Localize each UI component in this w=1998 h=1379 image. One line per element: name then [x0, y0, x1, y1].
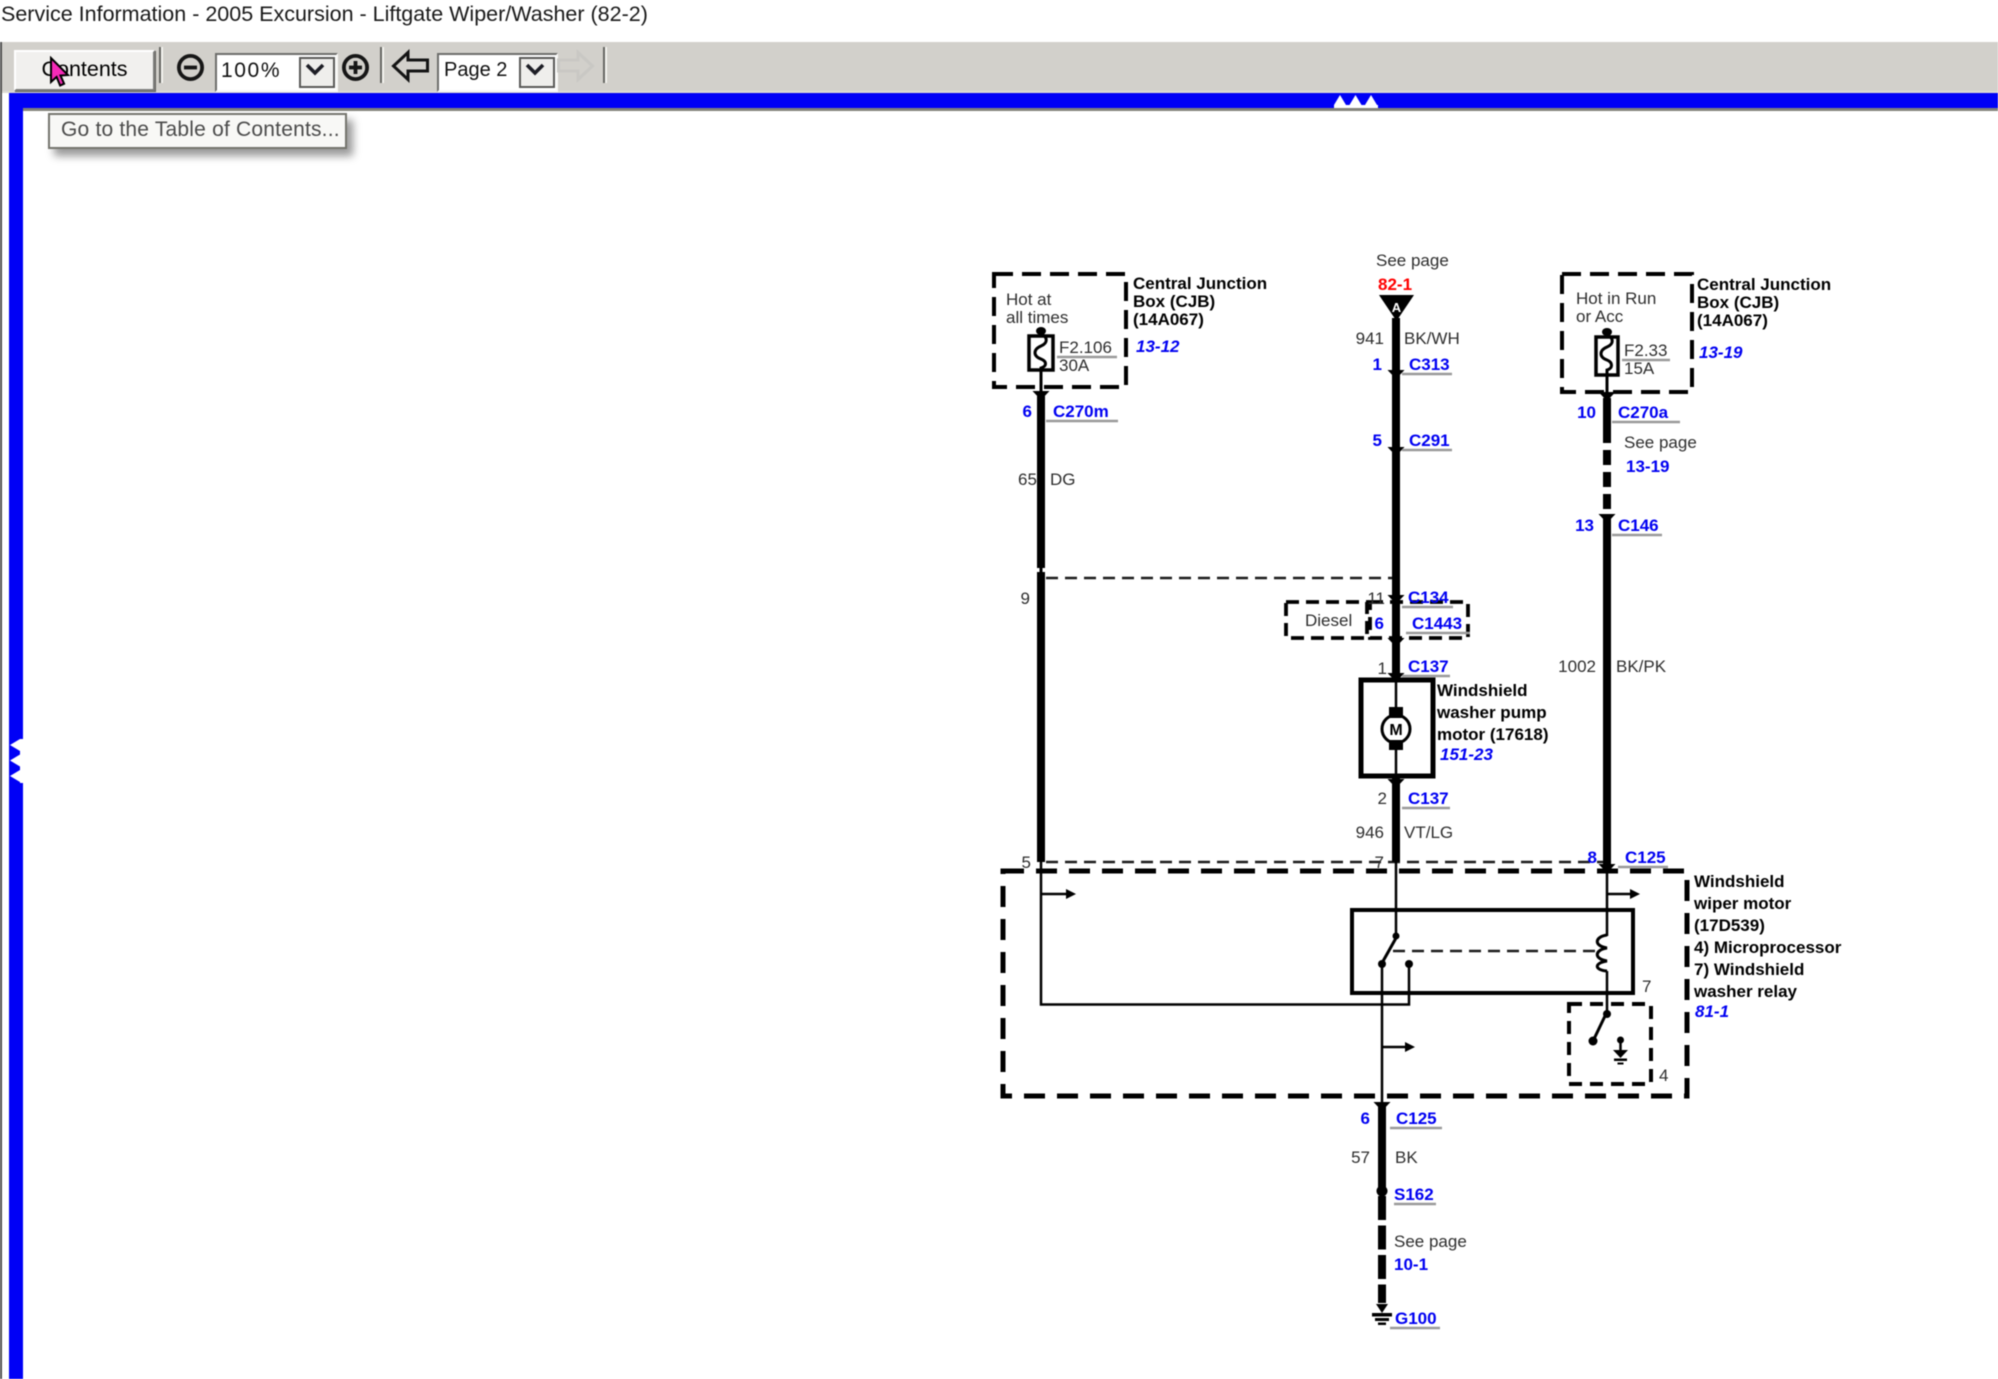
svg-text:13-19: 13-19 [1626, 457, 1669, 476]
svg-text:Box (CJB): Box (CJB) [1697, 293, 1779, 312]
svg-text:2: 2 [1378, 789, 1387, 808]
svg-text:1002: 1002 [1558, 657, 1596, 676]
svg-text:82-1: 82-1 [1378, 275, 1412, 294]
svg-text:BK/PK: BK/PK [1616, 657, 1667, 676]
svg-text:VT/LG: VT/LG [1404, 823, 1453, 842]
svg-text:C125: C125 [1625, 848, 1666, 867]
svg-text:C137: C137 [1408, 657, 1449, 676]
svg-text:BK: BK [1395, 1148, 1418, 1167]
svg-text:Hot in Run: Hot in Run [1576, 289, 1656, 308]
svg-text:washer pump: washer pump [1436, 703, 1547, 722]
svg-text:7) Windshield: 7) Windshield [1694, 960, 1804, 979]
svg-text:65: 65 [1018, 470, 1037, 489]
svg-text:4) Microprocessor: 4) Microprocessor [1694, 938, 1842, 957]
svg-text:1: 1 [1378, 659, 1387, 678]
svg-text:6: 6 [1375, 614, 1384, 633]
svg-text:13-19: 13-19 [1699, 343, 1743, 362]
svg-text:4: 4 [1659, 1066, 1668, 1085]
svg-text:7: 7 [1642, 977, 1651, 996]
svg-text:S162: S162 [1394, 1185, 1434, 1204]
svg-text:30A: 30A [1059, 356, 1090, 375]
svg-text:washer relay: washer relay [1693, 982, 1798, 1001]
svg-text:(14A067): (14A067) [1133, 310, 1204, 329]
svg-text:C146: C146 [1618, 516, 1659, 535]
svg-text:6: 6 [1361, 1109, 1370, 1128]
svg-text:13: 13 [1575, 516, 1594, 535]
svg-text:1: 1 [1373, 355, 1382, 374]
svg-text:81-1: 81-1 [1695, 1002, 1729, 1021]
svg-text:946: 946 [1356, 823, 1384, 842]
svg-text:15A: 15A [1624, 359, 1655, 378]
svg-text:6: 6 [1023, 402, 1032, 421]
svg-text:10-1: 10-1 [1394, 1255, 1428, 1274]
svg-text:G100: G100 [1395, 1309, 1437, 1328]
svg-text:(14A067): (14A067) [1697, 311, 1768, 330]
svg-text:Windshield: Windshield [1437, 681, 1528, 700]
svg-text:C1443: C1443 [1412, 614, 1462, 633]
svg-text:7: 7 [1375, 853, 1384, 872]
svg-text:C270a: C270a [1618, 403, 1669, 422]
svg-text:See page: See page [1376, 251, 1449, 270]
svg-text:F2.106: F2.106 [1059, 338, 1112, 357]
svg-text:C313: C313 [1409, 355, 1450, 374]
svg-text:Central Junction: Central Junction [1697, 275, 1831, 294]
svg-text:151-23: 151-23 [1440, 745, 1493, 764]
svg-text:57: 57 [1351, 1148, 1370, 1167]
svg-text:9: 9 [1021, 589, 1030, 608]
svg-text:Hot at: Hot at [1006, 290, 1052, 309]
svg-text:13-12: 13-12 [1136, 337, 1180, 356]
svg-text:941: 941 [1356, 329, 1384, 348]
svg-text:M: M [1389, 722, 1402, 739]
svg-text:Diesel: Diesel [1305, 611, 1352, 630]
svg-text:See page: See page [1624, 433, 1697, 452]
svg-text:F2.33: F2.33 [1624, 341, 1667, 360]
svg-text:motor (17618): motor (17618) [1437, 725, 1548, 744]
svg-text:C125: C125 [1396, 1109, 1437, 1128]
svg-text:or Acc: or Acc [1576, 307, 1624, 326]
svg-text:BK/WH: BK/WH [1404, 329, 1460, 348]
svg-text:See page: See page [1394, 1232, 1467, 1251]
svg-text:5: 5 [1022, 853, 1031, 872]
svg-text:A: A [1392, 300, 1402, 315]
svg-text:11: 11 [1367, 589, 1385, 608]
svg-text:8: 8 [1588, 848, 1597, 867]
svg-text:C137: C137 [1408, 789, 1449, 808]
svg-text:C134: C134 [1408, 588, 1449, 607]
svg-text:C291: C291 [1409, 431, 1450, 450]
svg-text:Box (CJB): Box (CJB) [1133, 292, 1215, 311]
svg-text:C270m: C270m [1053, 402, 1109, 421]
svg-text:all times: all times [1006, 308, 1068, 327]
svg-text:Central Junction: Central Junction [1133, 274, 1267, 293]
svg-text:wiper motor: wiper motor [1693, 894, 1792, 913]
svg-text:Windshield: Windshield [1694, 872, 1785, 891]
svg-text:DG: DG [1050, 470, 1076, 489]
svg-text:10: 10 [1577, 403, 1596, 422]
svg-text:5: 5 [1373, 431, 1382, 450]
svg-text:(17D539): (17D539) [1694, 916, 1765, 935]
